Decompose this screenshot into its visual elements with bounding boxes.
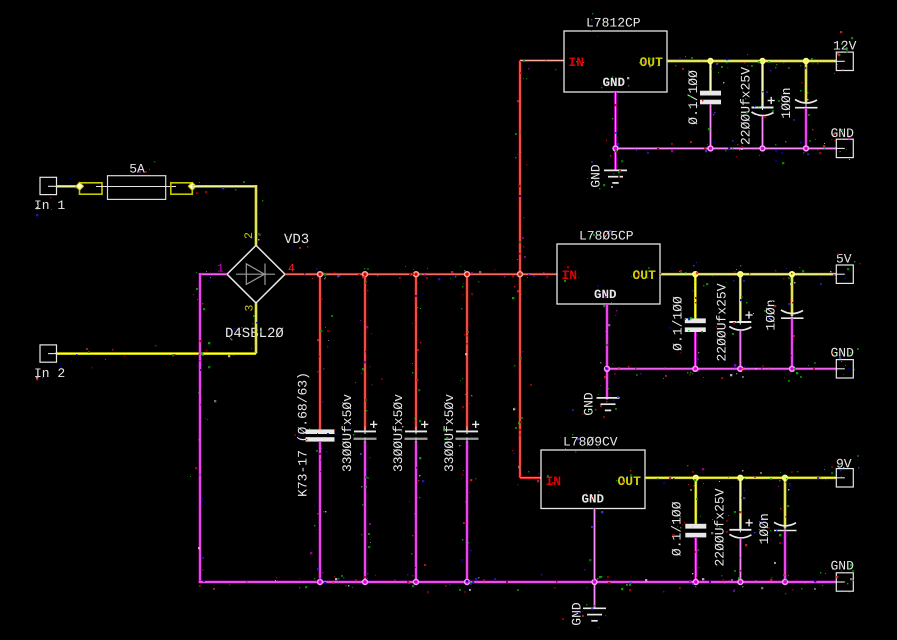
svg-text:K73-17 (Ø.68/63): K73-17 (Ø.68/63) [295,372,310,497]
node ground bus tap 3 [413,579,419,585]
wire In1 to fuse clip [57,185,81,188]
terminal GND of 12V section [836,139,853,157]
terminal 12V output [836,52,853,70]
ground symbol of 9V section [583,608,606,621]
capacitor C9 2200uF [729,317,751,330]
connector In 1 [40,177,57,194]
node ground bus tap 4 [464,579,470,585]
node red bus tap 3 [413,271,419,277]
wire C13 bottom to gnd bus [784,531,787,582]
svg-text:GND: GND [588,164,603,188]
plus mark of capacitor C9 2200uF [745,311,752,318]
capacitor C3 3300uF [405,426,428,442]
capacitor C13 100n [774,522,797,530]
capacitor C5 0.1uF [700,91,721,105]
wire to C6 top [761,61,764,107]
wire red bus to filter cap 1 [319,274,322,429]
wire filter cap 2 to ground bus [364,441,367,582]
node 9V gnd bus tap x695.8 [693,579,699,585]
wire red distribution vertical [519,61,522,478]
node 12V gnd bus tap x806 [803,145,809,151]
connector In 2 [40,345,57,362]
wire C7 bottom to gnd bus [805,108,808,148]
svg-text:1ØØn: 1ØØn [763,299,778,330]
wire red bus to filter cap 4 [466,274,469,430]
wire to C10 top [791,274,794,316]
bridge rectifier VD3 body [227,245,285,303]
svg-text:GND: GND [581,392,596,416]
wire filter cap 3 to ground bus [415,441,418,582]
svg-text:OUT: OUT [618,474,642,489]
wire to C5 top [709,61,712,91]
wire to C9 top [739,274,742,321]
wire L7809 GND pin down to ground [593,509,596,609]
svg-text:L78Ø9CV: L78Ø9CV [563,435,618,450]
plus mark of capacitor C12 2200uF [746,519,753,526]
svg-text:L7812CP: L7812CP [586,16,641,31]
node 9V gnd pin junction [591,579,597,585]
wire 9V output bus [645,476,836,479]
capacitor C12 2200uF [729,525,751,538]
wire 12V output bus [667,60,836,63]
wire to C13 top [784,478,787,529]
node 9V gnd bus tap x785 [782,579,788,585]
wire In2 to bridge [57,352,257,355]
ground symbol of 5V section [597,398,620,411]
node ground bus tap 2 [362,579,368,585]
wire to C12 top [739,478,742,529]
node 12V gnd bus tap x762.5 [759,145,765,151]
svg-text:22ØØUfx25V: 22ØØUfx25V [738,67,753,145]
wire L7805 GND pin down [606,304,609,400]
plus mark of capacitor C6 2200uF [768,97,775,104]
svg-text:Ø.1/1ØØ: Ø.1/1ØØ [669,501,684,556]
svg-text:22ØØUfx25V: 22ØØUfx25V [714,283,729,361]
node 9V bus tap x695.8 [693,475,699,481]
plus mark of capacitor C3 3300uF [421,421,428,428]
svg-text:33ØØUfx5Øv: 33ØØUfx5Øv [340,394,355,472]
wire to L7809 IN [520,476,541,479]
wire red bus to filter cap 3 [415,274,418,430]
fuse 5A body [96,176,176,200]
wire C6 bottom to gnd bus [761,116,764,148]
wire L7812 GND pin down [614,92,617,170]
node red bus tap 4 [464,271,470,277]
voltage regulator U3 L7809CV [541,450,645,509]
node 5V gnd bus tap x695.3 [692,366,698,372]
plus mark of capacitor C2 3300uF [370,421,377,428]
terminal 5V output [836,265,853,283]
wire C8 bottom to gnd bus [694,332,697,369]
svg-text:33ØØUfx5Øv: 33ØØUfx5Øv [442,394,457,472]
node 12V bus tap x806 [803,58,809,64]
svg-text:IN: IN [569,55,585,70]
node red bus tap 2 [362,271,368,277]
svg-text:Ø.1/1ØØ: Ø.1/1ØØ [670,296,685,351]
capacitor C8 0.1uF [685,318,706,332]
node 5V bus tap x740.3 [737,271,743,277]
wire rectified bus to L7805 IN [285,273,557,276]
node 5V gnd bus tap x740.3 [737,366,743,372]
node 12V bus tap x762.5 [759,58,765,64]
wire to C8 top [694,274,697,318]
wire 12V section ground bus [616,147,837,150]
capacitor C1 K73-17 [306,429,335,441]
wire filter cap 4 to ground bus [466,441,469,582]
wire C11 bottom to gnd bus [694,538,697,582]
svg-text:IN: IN [562,268,578,283]
capacitor C10 100n [781,310,804,318]
node 5V bus tap x695.3 [692,271,698,277]
wire 5V output bus [660,273,836,276]
fuse 5A holder right clip [171,182,196,194]
svg-text:9V: 9V [836,457,852,472]
node 12V gnd pin junction [612,145,618,151]
node 9V bus tap x740.4 [737,475,743,481]
node 9V gnd bus tap x740.4 [737,579,743,585]
node 12V bus tap x710.5 [707,58,713,64]
node 9V bus tap x785 [782,475,788,481]
wire red bus to filter cap 2 [364,274,367,430]
terminal GND of 9V section [836,573,853,591]
voltage regulator U1 L7812CP [564,31,667,92]
node red bus tap 1 [317,271,323,277]
fuse 5A holder left clip [76,182,102,194]
capacitor C11 0.1uF [685,524,706,538]
wire to L7812 IN [520,59,564,62]
ground symbol of 12V section [604,170,627,183]
svg-text:In 1: In 1 [34,198,65,213]
wire C9 bottom to gnd bus [739,331,742,369]
svg-text:3: 3 [243,304,256,311]
svg-text:Ø.1/1ØØ: Ø.1/1ØØ [686,70,701,125]
svg-text:VD3: VD3 [284,232,309,248]
svg-text:12V: 12V [833,39,857,54]
terminal GND of 5V section [836,360,853,378]
svg-text:2: 2 [243,232,256,239]
svg-text:33ØØUfx5Øv: 33ØØUfx5Øv [391,394,406,472]
plus mark of capacitor C4 3300uF [472,421,479,428]
svg-text:22ØØUfx25V: 22ØØUfx25V [712,488,727,566]
node 12V gnd bus tap x710.5 [707,145,713,151]
node 5V gnd bus tap x792 [789,366,795,372]
wire bridge pin 3 down [255,303,258,354]
voltage regulator U2 L7805CP [557,244,660,304]
wire C12 bottom to gnd bus [739,538,742,582]
capacitor C7 100n [795,100,818,108]
svg-text:1ØØn: 1ØØn [779,87,794,118]
wire 5V section ground bus [607,367,836,370]
node 5V gnd pin junction [604,366,610,372]
wire filter cap 1 to ground bus [319,442,322,582]
wire fuse to bend [192,185,256,188]
wire ground bus bottom [199,581,837,584]
wire to C11 top [694,478,697,524]
capacitor C6 2200uF [752,103,774,116]
wire ground net vertical [199,273,202,582]
wire down to bridge pin 2 [255,185,258,246]
capacitor C2 3300uF [354,426,377,442]
svg-text:GND: GND [582,493,605,507]
terminal 9V output [836,469,853,487]
node ground bus tap 1 [317,579,323,585]
svg-text:GND: GND [594,288,617,302]
svg-text:OUT: OUT [633,268,657,283]
capacitor C4 3300uF [456,426,479,442]
wire bridge pin 1 left [199,273,227,276]
svg-text:L78Ø5CP: L78Ø5CP [579,229,634,244]
wire C5 bottom to gnd bus [709,104,712,148]
wire to C7 top [805,61,808,104]
svg-text:In 2: In 2 [34,366,65,381]
svg-text:GND: GND [569,602,584,626]
wire C10 bottom to gnd bus [791,318,794,368]
node red bus to distribution vertical [517,271,523,277]
node 5V bus tap x792 [789,271,795,277]
